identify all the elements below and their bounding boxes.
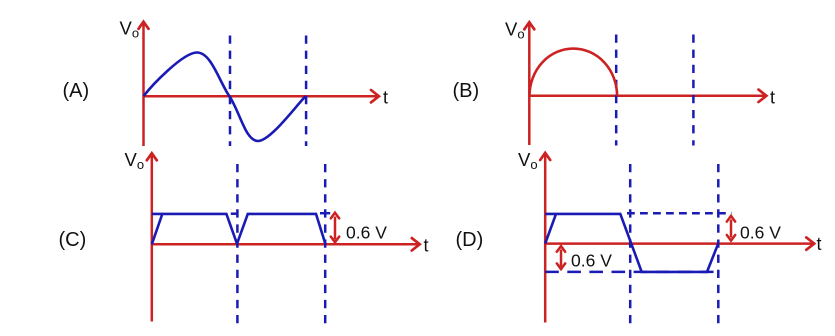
svg-text:t: t — [424, 236, 429, 256]
half-sine dome (panel B) — [530, 49, 618, 96]
svg-text:t: t — [383, 88, 388, 108]
svg-text:0.6 V: 0.6 V — [346, 223, 387, 243]
dashed line 1 (panel B) — [615, 35, 618, 146]
dashed level -0.6 (panel D) — [545, 271, 722, 274]
dashed line 2 (panel A) — [305, 36, 308, 147]
0.6V measure arrow right (panel D) — [730, 220, 733, 238]
0.6V measure arrow (panel C) — [334, 217, 337, 240]
horizontal axis t (panel B) — [529, 95, 766, 98]
dashed line 1 (panel D) — [629, 164, 632, 325]
svg-text:0.6 V: 0.6 V — [571, 251, 612, 271]
vertical axis (panel C) — [151, 154, 154, 322]
clipped waveform (panel D) — [545, 214, 718, 272]
horizontal axis t (panel D) — [545, 242, 814, 245]
svg-text:t: t — [817, 234, 822, 254]
dashed line 1 (panel C) — [236, 164, 239, 325]
svg-text:(A): (A) — [63, 80, 90, 102]
vertical axis (panel B) — [528, 23, 531, 145]
svg-text:(B): (B) — [453, 80, 480, 102]
svg-text:(C): (C) — [59, 229, 87, 251]
dashed line 1 (panel A) — [229, 36, 232, 147]
horizontal axis t (panel A) — [144, 95, 379, 98]
dashed line 2 (panel B) — [692, 35, 695, 146]
dashed line 2 (panel C) — [324, 164, 327, 325]
vertical axis (panel D) — [544, 153, 547, 322]
svg-text:t: t — [770, 88, 775, 108]
vertical axis (panel A) — [142, 22, 145, 146]
level dash in notch (panel C) — [231, 212, 238, 215]
clipped waveform (panel C) — [152, 214, 326, 244]
0.6V measure arrow left (panel D) — [560, 250, 563, 267]
sine wave (panel A) — [144, 53, 306, 142]
svg-text:0.6 V: 0.6 V — [740, 222, 781, 242]
level dash at right (panel C) — [320, 212, 330, 215]
horizontal axis t (panel C) — [152, 243, 420, 246]
dashed level +0.6 (panel D) — [627, 212, 732, 215]
dashed line 2 (panel D) — [717, 164, 720, 325]
svg-text:(D): (D) — [456, 229, 484, 251]
